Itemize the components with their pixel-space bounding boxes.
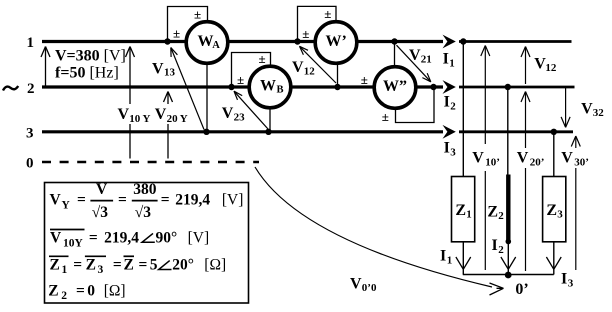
svg-text:12: 12 xyxy=(304,65,316,77)
svg-text:[V]: [V] xyxy=(222,192,244,209)
svg-text:√3: √3 xyxy=(92,204,109,221)
svg-text:10’: 10’ xyxy=(485,156,500,168)
svg-text:I: I xyxy=(561,271,567,288)
svg-text:=: = xyxy=(161,192,170,209)
svg-text:V: V xyxy=(534,56,546,73)
svg-text:V=380 [V]: V=380 [V] xyxy=(55,48,126,65)
svg-text:=: = xyxy=(77,192,86,209)
svg-text:2: 2 xyxy=(498,210,504,222)
svg-text:3: 3 xyxy=(557,208,563,220)
svg-text:5: 5 xyxy=(150,257,158,274)
svg-text:W: W xyxy=(198,33,214,50)
svg-text:30’: 30’ xyxy=(574,156,589,168)
svg-text:±: ± xyxy=(302,26,309,41)
svg-text:1: 1 xyxy=(449,58,455,70)
svg-text:2: 2 xyxy=(498,244,504,256)
svg-text:±: ± xyxy=(324,6,331,21)
svg-text:[V]: [V] xyxy=(188,230,210,247)
svg-text:10 Y: 10 Y xyxy=(129,113,150,125)
svg-text:±: ± xyxy=(237,72,244,87)
svg-text:V: V xyxy=(50,192,62,209)
svg-text:380: 380 xyxy=(133,181,157,198)
svg-text:I: I xyxy=(444,140,450,157)
svg-text:I: I xyxy=(444,94,450,111)
svg-text:1: 1 xyxy=(62,264,68,276)
svg-text:3: 3 xyxy=(98,264,104,276)
svg-text:=: = xyxy=(139,257,148,274)
svg-text:0: 0 xyxy=(87,282,95,299)
svg-text:=: = xyxy=(73,257,82,274)
svg-text:90°: 90° xyxy=(156,230,178,247)
svg-text:√3: √3 xyxy=(135,204,152,221)
svg-text:V: V xyxy=(50,230,62,247)
svg-text:20’: 20’ xyxy=(530,156,545,168)
svg-text:0’0: 0’0 xyxy=(362,282,377,294)
svg-text:W: W xyxy=(260,78,276,95)
svg-text:2: 2 xyxy=(450,101,456,113)
svg-text:12: 12 xyxy=(545,62,557,74)
svg-text:Z: Z xyxy=(86,257,96,274)
svg-text:±: ± xyxy=(173,26,180,41)
svg-text:3: 3 xyxy=(26,126,34,142)
svg-text:V: V xyxy=(96,181,108,198)
svg-text:V: V xyxy=(155,106,167,123)
svg-text:V: V xyxy=(409,47,421,64)
svg-text:0: 0 xyxy=(26,156,34,172)
svg-text:V: V xyxy=(118,106,130,123)
svg-text:±: ± xyxy=(382,109,389,124)
svg-text:V: V xyxy=(472,150,484,167)
svg-text:I: I xyxy=(443,51,449,68)
svg-text:1: 1 xyxy=(27,35,35,51)
svg-text:Z: Z xyxy=(546,202,557,219)
svg-text:I: I xyxy=(440,248,446,265)
svg-text:=: = xyxy=(76,282,85,299)
svg-text:I: I xyxy=(492,237,498,254)
svg-text:10Y: 10Y xyxy=(63,238,84,250)
svg-text:23: 23 xyxy=(234,112,246,124)
svg-text:3: 3 xyxy=(450,146,456,158)
svg-text:Y: Y xyxy=(62,200,71,212)
svg-text:V: V xyxy=(350,276,362,293)
svg-text:3: 3 xyxy=(568,277,574,289)
svg-text:=: = xyxy=(89,230,98,247)
svg-text:Z: Z xyxy=(487,204,498,221)
svg-text:W”: W” xyxy=(383,78,407,95)
svg-text:Z: Z xyxy=(124,257,134,274)
svg-text:W’: W’ xyxy=(326,33,347,50)
svg-text:Z: Z xyxy=(50,257,60,274)
svg-text:Z: Z xyxy=(455,202,466,219)
svg-text:±: ± xyxy=(361,72,368,87)
svg-text:V: V xyxy=(581,101,593,118)
svg-text:21: 21 xyxy=(421,54,432,66)
svg-text:[Ω]: [Ω] xyxy=(204,257,226,274)
svg-text:±: ± xyxy=(259,51,266,66)
svg-text:V: V xyxy=(517,150,529,167)
svg-text:B: B xyxy=(277,84,284,95)
svg-text:2: 2 xyxy=(27,81,35,97)
svg-text:=: = xyxy=(113,257,122,274)
svg-text:1: 1 xyxy=(447,254,453,266)
svg-text:V: V xyxy=(222,105,234,122)
svg-text:V: V xyxy=(561,150,573,167)
svg-text:2: 2 xyxy=(61,290,67,302)
svg-text:±: ± xyxy=(194,7,201,22)
svg-text:32: 32 xyxy=(593,107,605,119)
svg-text:f=50 [Hz]: f=50 [Hz] xyxy=(55,65,119,82)
svg-text:Z: Z xyxy=(48,282,58,299)
svg-text:219,4: 219,4 xyxy=(175,192,210,209)
svg-text:V: V xyxy=(152,61,164,78)
svg-text:219,4: 219,4 xyxy=(104,230,139,247)
svg-text:[Ω]: [Ω] xyxy=(104,282,126,299)
svg-text:1: 1 xyxy=(466,208,472,220)
svg-text:V: V xyxy=(292,59,304,76)
svg-text:20°: 20° xyxy=(172,257,194,274)
svg-text:=: = xyxy=(118,192,127,209)
svg-text:20 Y: 20 Y xyxy=(167,113,188,125)
svg-text:13: 13 xyxy=(164,67,176,79)
svg-text:0’: 0’ xyxy=(515,281,528,298)
svg-text:A: A xyxy=(212,40,220,51)
